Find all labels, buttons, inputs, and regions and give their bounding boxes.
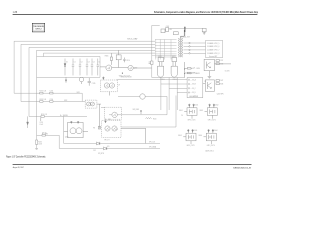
svg-text:— IN_C: — IN_C (190, 88, 196, 90)
svg-text:C437: C437 (220, 60, 224, 62)
svg-text:U7: U7 (118, 84, 120, 86)
svg-text:SPI_RTN: SPI_RTN (98, 153, 104, 155)
svg-text:C9: C9 (204, 81, 206, 83)
svg-text:D1: D1 (66, 62, 68, 64)
svg-text:C6: C6 (181, 115, 183, 117)
svg-text:C218: C218 (40, 122, 44, 124)
svg-text:SW_5V_CTRL: SW_5V_CTRL (188, 73, 198, 75)
svg-text:R424: R424 (197, 68, 201, 70)
svg-text:R520: R520 (153, 119, 157, 121)
svg-text:R438: R438 (220, 63, 224, 65)
svg-text:R210 1K: R210 1K (41, 114, 47, 116)
svg-text:Unused NP: Unused NP (209, 56, 217, 58)
svg-text:— IN_B: — IN_B (190, 84, 195, 86)
svg-text:R603: R603 (178, 135, 182, 137)
svg-text:R601: R601 (179, 110, 183, 112)
svg-text:R9: R9 (93, 128, 95, 130)
svg-text:L401: L401 (169, 29, 172, 31)
svg-text:C245: C245 (92, 83, 96, 85)
svg-text:C310: C310 (126, 60, 130, 62)
svg-text:R201 10K: R201 10K (40, 91, 47, 93)
svg-text:SW_B+_FLT: SW_B+_FLT (181, 37, 190, 39)
svg-text:— IN_D: — IN_D (190, 92, 196, 94)
svg-text:VR3_OUT 3.0V: VR3_OUT 3.0V (121, 77, 133, 79)
svg-text:SW2: SW2 (64, 100, 67, 102)
svg-text:August 20, 2007: August 20, 2007 (13, 166, 25, 169)
svg-text:C206: C206 (50, 99, 54, 101)
svg-text:TP5 C77: TP5 C77 (104, 140, 110, 142)
svg-text:100K: 100K (38, 143, 42, 145)
svg-text:6866532D01-B: 6866532D01-B (233, 167, 251, 169)
svg-text:SW_REF: SW_REF (133, 109, 139, 111)
svg-text:C3: C3 (88, 62, 90, 64)
svg-text:D601: D601 (195, 105, 199, 107)
svg-text:D603: D603 (194, 130, 198, 132)
svg-text:U4-LM2902: U4-LM2902 (189, 96, 198, 98)
svg-text:Q302: Q302 (134, 67, 138, 69)
svg-text:GPIO_OUT2: GPIO_OUT2 (208, 120, 216, 122)
svg-text:C5: C5 (98, 62, 100, 64)
svg-text:Q330: Q330 (65, 137, 69, 139)
svg-text:Q441 NPN: Q441 NPN (217, 94, 224, 96)
svg-text:GPIO_OUT3: GPIO_OUT3 (187, 145, 195, 147)
svg-text:C204: C204 (50, 91, 54, 93)
svg-text:SPI_CLK: SPI_CLK (149, 142, 155, 144)
svg-text:R202 10K: R202 10K (40, 99, 47, 101)
svg-text:0.1uF: 0.1uF (40, 124, 44, 126)
svg-text:R421: R421 (172, 56, 176, 58)
svg-text:B+_SENSE: B+_SENSE (60, 115, 68, 117)
svg-text:VR1: VR1 (108, 119, 111, 121)
svg-text:D12: D12 (93, 150, 96, 152)
svg-text:SW1: SW1 (77, 92, 80, 94)
svg-text:Schematics, Component Location: Schematics, Component Location Diagrams,… (154, 11, 258, 14)
svg-text:GPIO_OUT1: GPIO_OUT1 (188, 120, 196, 122)
svg-text:R215: R215 (38, 142, 42, 144)
svg-text:D602: D602 (215, 105, 219, 107)
svg-text:SHT 2: SHT 2 (35, 28, 42, 30)
svg-text:1-88: 1-88 (13, 12, 18, 14)
svg-text:C447: C447 (220, 80, 224, 82)
svg-text:R448: R448 (220, 83, 224, 85)
svg-text:B+_SNS: B+_SNS (42, 133, 48, 135)
svg-text:C1: C1 (74, 62, 76, 64)
svg-text:C4: C4 (93, 62, 95, 64)
svg-text:C402: C402 (166, 26, 170, 28)
svg-text:R305: R305 (105, 55, 109, 57)
svg-text:Q5: Q5 (116, 129, 118, 131)
svg-text:D11: D11 (107, 146, 110, 148)
svg-text:GPIO_OUT4: GPIO_OUT4 (207, 145, 215, 147)
svg-text:C2: C2 (81, 62, 83, 64)
svg-text:Figure 1-37 Controller PCI220: Figure 1-37 Controller PCI22020949C Sche… (6, 156, 46, 159)
svg-text:D604: D604 (214, 130, 218, 132)
svg-text:R420: R420 (158, 56, 162, 58)
svg-text:R604: R604 (199, 135, 203, 137)
svg-text:R602: R602 (200, 110, 204, 112)
svg-text:5V_SW: 5V_SW (225, 71, 230, 73)
